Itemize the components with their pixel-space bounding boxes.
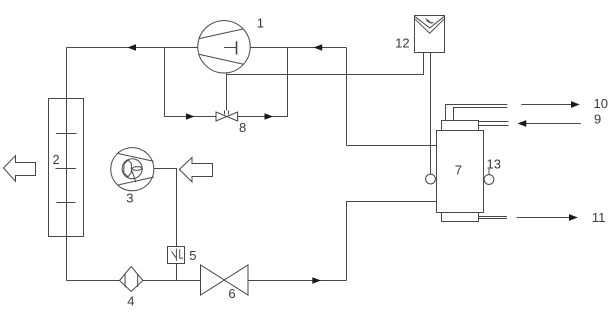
wire: compressor bottom down to valve 8: [226, 73, 228, 111]
wire: sight glass 5 down to bottom line: [176, 264, 178, 281]
air flow hollow arrow right: [179, 158, 212, 182]
wire: heater 12 right stub down to port circle: [430, 53, 432, 175]
tank 7 top flange: [442, 121, 479, 131]
wire: top suction line left of compressor: [67, 47, 199, 49]
sensor 13 stem: [488, 169, 490, 175]
wire: bottom line valve 6 to tank riser: [248, 280, 347, 282]
wire: valve 8 bypass line right: [238, 48, 288, 117]
wire: vertical from top wire down to tank upper pipe: [346, 48, 348, 146]
flow arrow on top-right wire: [314, 44, 323, 51]
valve 8: [216, 112, 238, 121]
expansion valve 6: [201, 265, 249, 295]
wire: top line right of compressor: [250, 47, 346, 49]
node: tank right port circle: [484, 175, 494, 185]
svg-text:3: 3: [126, 190, 133, 205]
svg-text:1: 1: [257, 15, 264, 30]
svg-text:10: 10: [594, 96, 608, 111]
svg-text:7: 7: [455, 163, 462, 178]
valve 8 stem: [225, 111, 229, 115]
wire: left vertical down through condenser 2: [66, 48, 68, 281]
condenser 2: [49, 99, 84, 237]
sight glass 5: [168, 247, 185, 264]
wire: valve 8 bypass line left: [165, 48, 217, 117]
wire: discharge line to heater 12: [227, 53, 424, 75]
arrow 10: [521, 104, 572, 106]
wire: upper pipe into tank 7: [347, 145, 437, 147]
flow arrow bypass left: [186, 113, 195, 120]
svg-text:12: 12: [395, 35, 409, 50]
flow arrow bottom line: [312, 277, 321, 284]
flow arrow bypass right: [265, 113, 274, 120]
pipe: bottom outlet double line: [479, 216, 508, 218]
arrow 11: [517, 217, 570, 219]
flow arrow on top-left wire: [127, 44, 136, 51]
wire: fan to sight glass 5: [154, 169, 177, 247]
wire: bottom line filter to valve 6: [143, 280, 201, 282]
pipe: cold water inlet double line: [479, 121, 509, 123]
pipe: hot water outlet double line bend: [446, 105, 508, 121]
wire: tank lower pipe to bottom line: [347, 202, 437, 281]
node: tank left port circle: [426, 174, 436, 184]
svg-text:13: 13: [487, 157, 501, 172]
tank 7 bottom flange: [442, 213, 479, 222]
svg-text:9: 9: [594, 112, 601, 127]
compressor 1: [198, 21, 250, 73]
wire: bottom line from condenser to filter 4: [67, 280, 120, 282]
svg-text:2: 2: [53, 153, 60, 167]
filter 4: [120, 267, 143, 292]
svg-text:6: 6: [228, 286, 235, 301]
svg-text:8: 8: [239, 120, 246, 135]
arrow 9: [526, 123, 581, 125]
fan 3: [111, 148, 154, 191]
svg-text:4: 4: [127, 294, 134, 309]
heater 12: [415, 16, 445, 53]
svg-text:11: 11: [592, 210, 606, 225]
tank 7 body: [437, 131, 484, 213]
air flow hollow arrow left: [4, 156, 36, 182]
svg-text:5: 5: [189, 248, 196, 263]
